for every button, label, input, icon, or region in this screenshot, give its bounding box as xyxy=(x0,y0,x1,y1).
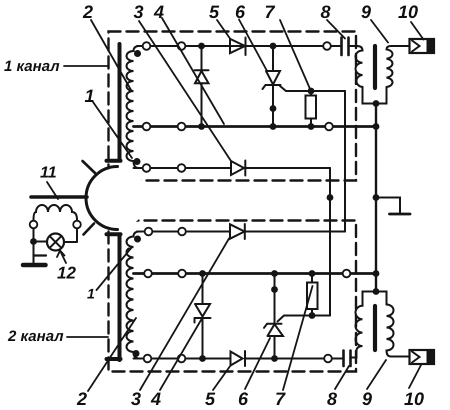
leader label 5 bottom xyxy=(213,366,231,391)
wire to ground xyxy=(376,198,400,214)
lamp HL12 xyxy=(34,229,78,251)
leader label 11 xyxy=(47,182,58,199)
leader label 6 bottom xyxy=(245,338,270,389)
wire V2: ch1 trigger to ch2 gate rail xyxy=(329,168,331,316)
diode VD5 (ch1 row A) xyxy=(230,38,246,56)
polarity dot winding 1' (ch2 top) xyxy=(134,236,141,243)
leader label 8 bottom xyxy=(335,366,349,389)
terminal circle before C8' xyxy=(324,355,332,363)
terminal circle row B' right xyxy=(343,270,351,278)
generator winding 11 core xyxy=(31,195,87,199)
leader label 5 top xyxy=(217,20,230,39)
polarity dot winding 1 (ch1 bottom) xyxy=(134,158,141,165)
wire V1: ch2 trigger to ch1 gate rail xyxy=(344,91,346,232)
leader label 9 bottom xyxy=(367,360,386,389)
node R7' top xyxy=(309,270,316,277)
node on VD6 leg xyxy=(270,105,277,112)
terminal circle xyxy=(178,270,186,278)
svg-text:1: 1 xyxy=(85,86,95,106)
rotor pole tick lower xyxy=(84,224,95,235)
node R7' bottom xyxy=(309,312,316,319)
diode VD3 (ch1 trigger) xyxy=(231,161,245,176)
leader label 6 top xyxy=(239,20,267,71)
wire VD6' cathode to gate rail xyxy=(278,316,331,322)
terminal circle xyxy=(143,123,151,131)
zener VD4 (ch1) xyxy=(195,46,209,127)
capacitor C8' (ch2) xyxy=(344,351,351,367)
rotor pole tick upper xyxy=(83,161,96,173)
diode VD3' (ch2 trigger) xyxy=(230,224,245,239)
wire row A (ch1 top rail) xyxy=(137,45,342,47)
node coil T9' common xyxy=(373,288,380,295)
ground xyxy=(390,213,411,216)
svg-text:3: 3 xyxy=(134,2,144,22)
svg-text:2: 2 xyxy=(82,2,93,22)
resistor R7 (ch1) xyxy=(306,96,317,119)
transformer T2 winding (channel 2) xyxy=(127,232,139,359)
leader line label 1 канал xyxy=(64,65,108,67)
wire row B' (ch2 middle rail) xyxy=(134,272,377,275)
leader label 1 ch2 xyxy=(97,247,133,290)
spark plug 10' (ch2) xyxy=(410,350,435,364)
leader label 1 ch1 xyxy=(93,102,132,158)
ignition coil T9 primary (ch1) xyxy=(356,46,387,104)
svg-text:4: 4 xyxy=(150,389,161,409)
svg-text:7: 7 xyxy=(265,2,276,22)
leader label 4 top xyxy=(162,18,224,124)
terminal circle row B right xyxy=(325,123,333,131)
terminal circle xyxy=(178,355,186,363)
node bus/ground tee xyxy=(373,194,380,201)
terminal circle xyxy=(143,164,151,172)
leader label 2 bottom xyxy=(88,318,136,391)
zener VD6' (ch2) xyxy=(264,274,283,359)
ignition coil T9' primary (ch2) xyxy=(351,292,387,358)
node R7 top xyxy=(308,88,315,95)
svg-text:6: 6 xyxy=(238,389,249,409)
leader label 3 top xyxy=(139,21,231,161)
svg-text:4: 4 xyxy=(153,2,164,22)
node on VD6' leg xyxy=(271,286,278,293)
wire row C (ch1 trigger rail) xyxy=(134,167,331,169)
zener VD4' (ch2) xyxy=(195,274,211,359)
rotor interior mask xyxy=(88,168,148,228)
node row B to bus xyxy=(373,123,380,130)
node on V2 xyxy=(327,194,334,201)
leader label 10 bottom xyxy=(409,365,421,388)
node VD6 bottom xyxy=(270,123,277,130)
polarity dot winding 2 (ch1 top) xyxy=(134,50,141,57)
svg-text:5: 5 xyxy=(209,2,220,22)
terminal circle w11 right xyxy=(73,221,81,229)
svg-text:6: 6 xyxy=(235,2,246,22)
svg-text:8: 8 xyxy=(327,389,337,409)
ground tick xyxy=(34,254,47,256)
wire VD6 cathode to gate rail xyxy=(280,86,345,91)
leader label 4 bottom xyxy=(160,318,203,391)
wire C8 to coil xyxy=(349,45,358,47)
terminal circle xyxy=(178,164,186,172)
svg-text:10: 10 xyxy=(398,2,418,22)
svg-text:12: 12 xyxy=(57,264,76,283)
leader label 9 top xyxy=(371,20,388,43)
generator winding 11 xyxy=(34,205,78,220)
channel 1 dashed enclosure xyxy=(109,32,357,181)
leader label 7 top xyxy=(280,20,311,90)
leader label 2 top xyxy=(91,20,131,90)
node VD4' top xyxy=(199,270,206,277)
wire row B (ch1 middle rail) xyxy=(134,125,377,128)
resistor R7' leads xyxy=(311,274,313,316)
terminal circle xyxy=(178,42,186,50)
ignition coil T9 core (ch1) xyxy=(373,46,377,88)
resistor R7' (ch2) xyxy=(307,283,318,310)
terminal circle xyxy=(144,355,152,363)
node R7 bottom xyxy=(308,123,315,130)
svg-text:1 канал: 1 канал xyxy=(4,58,60,75)
svg-text:7: 7 xyxy=(275,389,286,409)
svg-text:3: 3 xyxy=(131,389,141,409)
ground bar xyxy=(23,263,46,268)
ignition coil T9' secondary (ch2) xyxy=(387,305,413,357)
terminal circle xyxy=(144,270,152,278)
node VD6' top xyxy=(271,270,278,277)
polarity dot winding 2' (ch2 bottom) xyxy=(133,350,140,357)
node: zener VD6 tap on row A xyxy=(270,43,277,50)
leader arrow label 12 xyxy=(60,251,66,264)
resistor R7 leads xyxy=(310,91,312,127)
node lamp tee xyxy=(30,238,37,245)
transformer T1 winding (channel 1) xyxy=(127,46,139,168)
capacitor C8 (ch1) xyxy=(342,38,349,56)
ignition coil T9' core (ch2) xyxy=(373,306,377,350)
node: zener VD4 tap on row A xyxy=(198,43,205,50)
terminal circle xyxy=(145,228,153,236)
diode VD5' (ch2 bottom rail) xyxy=(231,351,246,366)
terminal circle xyxy=(143,42,151,50)
svg-text:10: 10 xyxy=(404,389,424,409)
leader line label 2 канал xyxy=(67,336,108,338)
svg-text:8: 8 xyxy=(321,2,331,22)
terminal circle xyxy=(178,123,186,131)
terminal circle w11 left xyxy=(30,221,38,229)
common bus wire xyxy=(375,104,377,292)
node VD6' bottom xyxy=(271,355,278,362)
zener VD6 (ch1) xyxy=(263,46,281,127)
svg-text:9: 9 xyxy=(361,2,371,22)
transformer T2 core (channel 2) xyxy=(107,234,121,360)
terminal circle before capacitor C8 xyxy=(323,42,331,50)
wire row C' (ch2 bottom rail) xyxy=(134,358,344,360)
svg-text:9: 9 xyxy=(362,389,372,409)
node row B' to bus xyxy=(373,270,380,277)
leader label 3 bottom xyxy=(140,239,229,391)
svg-text:2 канал: 2 канал xyxy=(7,328,64,345)
node coil T9 common xyxy=(373,100,380,107)
leader label 10 top xyxy=(411,22,424,40)
wire row A' (ch2 trigger rail) xyxy=(137,231,345,233)
svg-text:1: 1 xyxy=(87,286,95,302)
node VD4' bottom xyxy=(199,355,206,362)
svg-text:5: 5 xyxy=(205,389,216,409)
node VD4 bottom xyxy=(198,123,205,130)
channel 2 dashed enclosure xyxy=(109,221,357,372)
svg-text:2: 2 xyxy=(76,389,87,409)
transformer T1 core (channel 1) xyxy=(107,44,121,161)
terminal circle xyxy=(178,228,186,236)
rotor (magneto flywheel arc) xyxy=(86,167,117,230)
leader label 8 top xyxy=(327,20,345,39)
ignition coil T9 secondary (ch1) xyxy=(387,46,413,87)
leader label 7 bottom xyxy=(283,286,313,390)
spark plug 10 (ch1) xyxy=(410,39,435,53)
svg-text:11: 11 xyxy=(40,165,57,182)
wire w11 left down xyxy=(33,229,35,264)
